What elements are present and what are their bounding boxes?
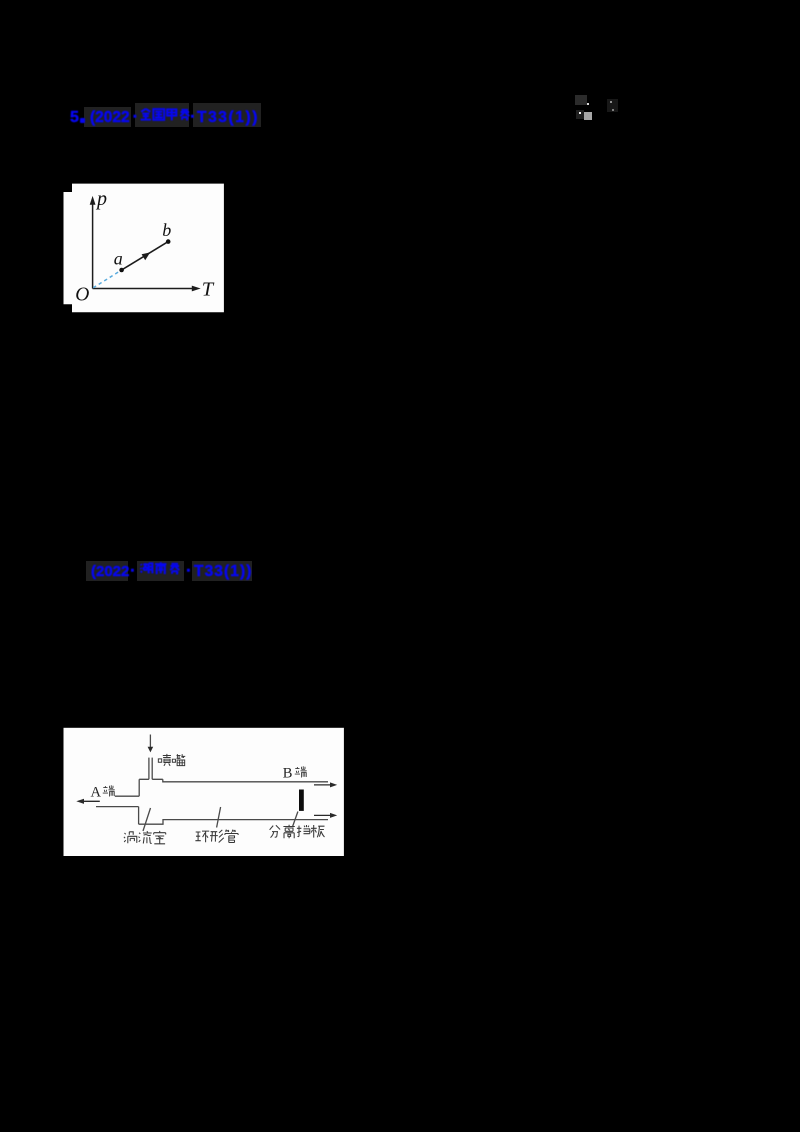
- point b: [166, 239, 171, 244]
- line a to b: [122, 242, 169, 270]
- bottom arrowhead: [330, 813, 337, 818]
- leader line baffle: [293, 812, 298, 827]
- 端 after B: [295, 766, 307, 777]
- faint equation remnants top right: [575, 95, 587, 105]
- bottom right arrow shaft: [314, 814, 332, 816]
- inlet down arrow shaft: [149, 735, 151, 749]
- svg-text:b: b: [162, 220, 171, 240]
- A outlet bottom line: [96, 806, 139, 808]
- point a: [119, 268, 124, 273]
- 涡流室 vortex chamber label: [124, 832, 137, 843]
- svg-text:a: a: [114, 249, 123, 269]
- glyph definitions (simplified CJK strokes): [0, 0, 4, 4]
- figure 2: vortex tube: [63, 727, 345, 857]
- 分离挡板 baffle label: [270, 825, 281, 837]
- heading 2 blue text: [91, 563, 129, 580]
- A outlet top line: [115, 795, 139, 797]
- inlet arrowhead: [148, 747, 154, 753]
- heading 2 highlight boxes: [86, 561, 128, 581]
- heading 1 highlight boxes: [84, 107, 131, 127]
- 喷嘴 nozzle label: [158, 754, 171, 766]
- vortex chamber top edge: [139, 778, 163, 780]
- mid arrowhead on ab: [142, 252, 151, 260]
- B end top right arrow shaft: [314, 784, 332, 786]
- chamber left wall upper: [138, 779, 140, 796]
- B top arrowhead: [330, 782, 337, 787]
- separation baffle bar: [299, 790, 304, 811]
- heading 1 blue text: [70, 109, 79, 127]
- A end left arrow shaft: [83, 800, 100, 802]
- leader line vortex chamber: [143, 808, 151, 831]
- step down to tube top / tube top line: [163, 779, 328, 782]
- T axis (horizontal): [93, 288, 194, 290]
- svg-text:B: B: [283, 766, 293, 782]
- svg-text:O: O: [75, 285, 89, 306]
- chamber bottom edge and step up to tube bottom line: [139, 820, 328, 825]
- white panel: [64, 728, 344, 856]
- svg-text:p: p: [95, 188, 107, 210]
- A arrowhead: [76, 799, 84, 804]
- chamber left wall lower: [138, 807, 140, 825]
- p axis (vertical): [92, 202, 94, 289]
- CJK labels: [103, 754, 325, 844]
- white panel with notched left corners: [64, 184, 224, 313]
- svg-text:A: A: [91, 785, 102, 801]
- 环形管 annular tube label: [195, 831, 209, 842]
- figure 1: p-T graph: [63, 183, 225, 313]
- svg-text:T: T: [202, 279, 215, 301]
- leader line annular tube: [217, 807, 221, 828]
- nozzle twin walls: [148, 758, 150, 780]
- dashed line O to a: [93, 271, 120, 288]
- 端 after A: [103, 785, 115, 796]
